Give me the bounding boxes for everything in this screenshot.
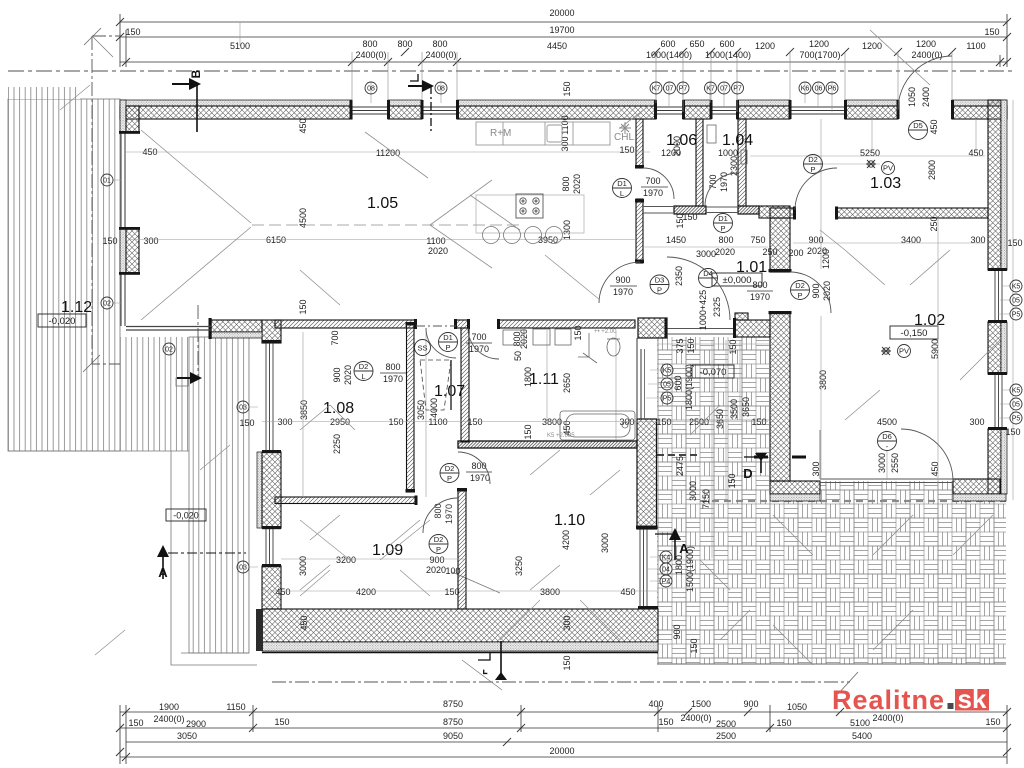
svg-text:1050: 1050 xyxy=(907,87,917,107)
svg-text:150: 150 xyxy=(656,417,671,427)
svg-text:3000: 3000 xyxy=(696,249,716,259)
svg-text:-0,150: -0,150 xyxy=(901,328,928,339)
svg-text:4450: 4450 xyxy=(547,41,567,51)
svg-text:600: 600 xyxy=(719,39,734,49)
svg-text:2020: 2020 xyxy=(428,246,448,256)
svg-text:4200: 4200 xyxy=(356,587,376,597)
svg-text:07: 07 xyxy=(666,86,674,93)
svg-text:1100: 1100 xyxy=(966,41,985,51)
svg-text:3800: 3800 xyxy=(542,417,562,427)
terrace deck 1.12 striped area xyxy=(8,87,257,665)
house bottom wall (under 1.09/1.10) xyxy=(262,609,658,642)
svg-text:150: 150 xyxy=(658,717,673,727)
svg-text:1.02: 1.02 xyxy=(914,312,945,329)
svg-text:150: 150 xyxy=(444,587,459,597)
wall piece right of 1.04 to 1.01|1.02 wall xyxy=(759,206,790,218)
svg-text:150: 150 xyxy=(239,418,254,428)
svg-text:900: 900 xyxy=(332,367,342,382)
svg-text:150: 150 xyxy=(128,718,143,728)
svg-text:5900: 5900 xyxy=(930,339,940,359)
dash-dot line below house bottom wall xyxy=(272,681,850,683)
entrance threshold xyxy=(667,329,735,335)
svg-text:150: 150 xyxy=(388,417,403,427)
svg-text:2000: 2000 xyxy=(672,136,682,156)
svg-text:800: 800 xyxy=(752,280,767,290)
svg-text:150: 150 xyxy=(1007,238,1022,248)
svg-text:6150: 6150 xyxy=(266,235,286,245)
svg-text:+• +2.00: +• +2.00 xyxy=(594,329,617,335)
svg-text:300: 300 xyxy=(970,235,985,245)
svg-text:06: 06 xyxy=(815,86,823,93)
svg-text:450: 450 xyxy=(620,587,635,597)
svg-text:P: P xyxy=(657,286,662,295)
svg-text:2020: 2020 xyxy=(715,247,735,257)
partition 1.08|1.09 horizontal xyxy=(275,497,416,504)
1.01|1.02 vertical wall xyxy=(770,218,790,272)
svg-text:650: 650 xyxy=(689,39,704,49)
svg-text:5100: 5100 xyxy=(850,718,870,728)
svg-text:⌞: ⌞ xyxy=(482,662,488,676)
black caps at wall ends (top wall) xyxy=(350,100,955,119)
svg-text:P: P xyxy=(445,343,450,352)
svg-text:1050: 1050 xyxy=(787,702,807,712)
svg-text:1200: 1200 xyxy=(809,39,829,49)
svg-text:150: 150 xyxy=(776,718,791,728)
svg-text:2400(0): 2400(0) xyxy=(680,713,711,723)
1.05 left glass facade xyxy=(121,133,125,326)
1.02 bottom-left corner block xyxy=(770,481,820,494)
svg-text:50: 50 xyxy=(513,351,523,361)
partition 1.07|1.11 vertical xyxy=(461,328,469,442)
svg-text:400: 400 xyxy=(648,699,663,709)
svg-text:2020: 2020 xyxy=(426,565,446,575)
tick verticals from wall to dim row xyxy=(352,52,952,100)
svg-text:D2: D2 xyxy=(359,362,369,371)
svg-text:3650: 3650 xyxy=(715,409,725,429)
1.03 bottom wall xyxy=(837,208,988,218)
diagonals in 1.09 / deck arrows xyxy=(60,85,620,655)
1.02 glass door D6 (3000) xyxy=(820,479,953,483)
svg-text:02: 02 xyxy=(165,347,173,354)
svg-text:600: 600 xyxy=(673,375,683,390)
svg-text:4000: 4000 xyxy=(429,398,439,418)
svg-text:1.08: 1.08 xyxy=(323,400,354,417)
bottom outline of walkway/patio xyxy=(657,663,1006,665)
svg-text:-0,020: -0,020 xyxy=(49,316,76,327)
svg-text:2250: 2250 xyxy=(332,434,342,454)
svg-text:4500: 4500 xyxy=(877,417,897,427)
svg-text:150: 150 xyxy=(274,717,289,727)
svg-text:P4: P4 xyxy=(662,579,671,586)
svg-text:1970: 1970 xyxy=(643,188,663,198)
svg-text:150: 150 xyxy=(728,339,738,354)
svg-text:150: 150 xyxy=(298,299,308,314)
svg-text:600: 600 xyxy=(660,39,675,49)
svg-text:150: 150 xyxy=(562,655,572,670)
svg-text:3050: 3050 xyxy=(177,731,197,741)
svg-text:K4: K4 xyxy=(662,555,671,562)
svg-text:1.10: 1.10 xyxy=(554,512,585,529)
svg-text:2400(0): 2400(0) xyxy=(425,50,456,60)
svg-text:P: P xyxy=(447,474,452,483)
svg-text:150: 150 xyxy=(984,27,999,37)
svg-text:300: 300 xyxy=(560,136,570,151)
partition 1.05|1.08 / 1.11 top band y320-328 xyxy=(275,320,416,328)
svg-text:03: 03 xyxy=(239,565,247,572)
svg-text:P: P xyxy=(436,545,441,554)
wall seg D x683-711 xyxy=(683,100,711,106)
1.06/1.04 bottom wall xyxy=(674,206,706,214)
svg-text:K6: K6 xyxy=(801,86,810,93)
svg-text:150: 150 xyxy=(523,424,533,439)
svg-text:P7: P7 xyxy=(733,86,742,93)
1.04 right wall xyxy=(738,119,746,206)
svg-text:800: 800 xyxy=(385,362,400,372)
svg-text:150: 150 xyxy=(467,417,482,427)
svg-text:2475: 2475 xyxy=(675,456,685,476)
svg-text:L: L xyxy=(620,189,624,198)
svg-text:1000+425: 1000+425 xyxy=(698,290,708,330)
svg-text:1000(1400): 1000(1400) xyxy=(646,50,692,60)
svg-text:2020: 2020 xyxy=(572,174,582,194)
svg-text:100: 100 xyxy=(445,566,460,576)
svg-text:800: 800 xyxy=(397,39,412,49)
svg-text:4200: 4200 xyxy=(561,530,571,550)
svg-text:2800: 2800 xyxy=(927,160,937,180)
svg-text:250: 250 xyxy=(762,247,777,257)
1.05 bottom glass facade xyxy=(126,327,211,331)
svg-text:150: 150 xyxy=(751,417,766,427)
svg-text:K7: K7 xyxy=(706,86,715,93)
svg-text:05: 05 xyxy=(1012,402,1020,409)
svg-text:3400: 3400 xyxy=(901,235,921,245)
svg-text:D2: D2 xyxy=(795,281,805,290)
1.07 dashed trapezoid xyxy=(420,360,451,410)
bathroom 1.11 bottom wall (dense) xyxy=(458,441,637,448)
svg-text:1.12: 1.12 xyxy=(61,299,92,316)
svg-text:A: A xyxy=(679,541,689,556)
svg-text:150: 150 xyxy=(727,473,737,488)
left top corner block xyxy=(120,100,126,133)
svg-text:1970: 1970 xyxy=(469,344,489,354)
svg-text:K5: K5 xyxy=(663,368,672,375)
svg-text:450: 450 xyxy=(298,118,308,133)
svg-text:3850: 3850 xyxy=(299,400,309,420)
washer in 1.09 corner? small table on deck xyxy=(176,378,188,386)
svg-text:2400: 2400 xyxy=(921,87,931,107)
1.09 west window dark bar xyxy=(256,609,263,651)
svg-text:7150: 7150 xyxy=(701,489,711,509)
svg-text:150: 150 xyxy=(689,638,699,653)
top wall window sills xyxy=(352,107,845,114)
svg-text:sk: sk xyxy=(958,684,987,714)
svg-text:250: 250 xyxy=(929,216,939,231)
svg-text:P: P xyxy=(797,291,802,300)
svg-text:700: 700 xyxy=(708,174,718,189)
svg-text:450: 450 xyxy=(299,615,309,630)
svg-text:D6: D6 xyxy=(882,432,892,441)
svg-text:150: 150 xyxy=(619,145,634,155)
svg-text:D1: D1 xyxy=(718,214,728,223)
svg-text:-0,070: -0,070 xyxy=(700,367,727,378)
svg-text:450: 450 xyxy=(275,587,290,597)
door label circles (two-line) xyxy=(354,121,928,555)
svg-text:900: 900 xyxy=(743,699,758,709)
svg-text:A: A xyxy=(158,565,168,580)
svg-text:200: 200 xyxy=(788,248,803,258)
svg-text:K5: K5 xyxy=(1012,388,1021,395)
svg-text:1970: 1970 xyxy=(470,473,490,483)
svg-text:P5: P5 xyxy=(1012,416,1021,423)
svg-text:1.05: 1.05 xyxy=(367,195,398,212)
svg-text:150: 150 xyxy=(985,717,1000,727)
svg-text:150: 150 xyxy=(675,213,685,228)
corner block left of entrance xyxy=(638,318,667,338)
top wall masonry+insulation segments xyxy=(120,100,1007,119)
svg-text:-0,020: -0,020 xyxy=(173,511,199,521)
svg-text:PV: PV xyxy=(883,164,893,173)
svg-text:07: 07 xyxy=(720,86,728,93)
1.05 bottom exterior wall piece x211-262 xyxy=(211,320,262,332)
svg-text:1300: 1300 xyxy=(562,220,572,240)
svg-text:P5: P5 xyxy=(663,396,672,403)
svg-text:1100: 1100 xyxy=(426,236,445,246)
svg-text:08: 08 xyxy=(437,86,445,93)
1.04 fixtures xyxy=(707,125,747,164)
svg-text:1970: 1970 xyxy=(383,374,403,384)
svg-text:04: 04 xyxy=(662,567,670,574)
svg-text:1.01: 1.01 xyxy=(736,259,767,276)
svg-text:05: 05 xyxy=(1012,298,1020,305)
right wall windows xyxy=(995,270,1002,429)
wall seg G corner x952-1007 xyxy=(952,100,1007,106)
svg-text:900: 900 xyxy=(672,624,682,639)
svg-text:3000: 3000 xyxy=(600,533,610,553)
svg-text:20000: 20000 xyxy=(549,8,574,18)
svg-text:300: 300 xyxy=(562,615,572,630)
wall seg C x457-656 xyxy=(457,100,656,106)
svg-text:1200: 1200 xyxy=(916,39,936,49)
svg-text:150: 150 xyxy=(125,27,140,37)
1.01 bottom wall (right of entrance) xyxy=(735,313,748,320)
svg-text:3500: 3500 xyxy=(729,399,739,419)
entry walkway brick strip xyxy=(657,337,769,664)
svg-text:2020: 2020 xyxy=(343,365,353,385)
1.02 bottom-right corner L wall xyxy=(953,479,1000,494)
svg-text:1450: 1450 xyxy=(666,235,686,245)
svg-text:2020: 2020 xyxy=(822,281,832,301)
svg-text:900: 900 xyxy=(811,283,821,298)
svg-text:1500: 1500 xyxy=(691,699,711,709)
svg-text:300: 300 xyxy=(811,461,821,476)
big wall column 1.11/1.10 | walkway xyxy=(637,419,657,529)
svg-text:150: 150 xyxy=(102,236,117,246)
patio brick area xyxy=(769,481,1006,664)
svg-text:750: 750 xyxy=(750,235,765,245)
svg-text:±0,000: ±0,000 xyxy=(723,275,752,286)
svg-text:450: 450 xyxy=(929,119,939,134)
svg-text:900: 900 xyxy=(429,555,444,565)
svg-text:1.04: 1.04 xyxy=(722,132,753,149)
svg-text:Realitne: Realitne xyxy=(832,685,945,715)
svg-text:8750: 8750 xyxy=(443,699,463,709)
svg-text:05: 05 xyxy=(663,382,671,389)
svg-text:375: 375 xyxy=(675,338,685,353)
svg-text:9050: 9050 xyxy=(443,731,463,741)
svg-text:800: 800 xyxy=(718,235,733,245)
svg-text:D1: D1 xyxy=(443,333,453,342)
svg-text:450: 450 xyxy=(930,461,940,476)
right wall segments xyxy=(988,100,1007,494)
svg-text:150: 150 xyxy=(562,81,572,96)
svg-text:2500: 2500 xyxy=(716,731,736,741)
svg-text:3800: 3800 xyxy=(540,587,560,597)
svg-text:K5 +2.685: K5 +2.685 xyxy=(547,433,575,439)
black wall tie symbols at 1.02 xyxy=(754,456,806,459)
1.06|1.04 wall xyxy=(696,119,703,206)
svg-text:R+M: R+M xyxy=(490,128,511,139)
svg-text:150: 150 xyxy=(573,325,583,340)
svg-text:1200: 1200 xyxy=(862,41,882,51)
svg-text:1800(1900): 1800(1900) xyxy=(684,364,694,410)
grey interior dimension extension lines xyxy=(113,22,1013,591)
svg-text:1150: 1150 xyxy=(226,702,245,712)
svg-text:P7: P7 xyxy=(679,86,688,93)
patio dashed grey top edge xyxy=(700,500,1006,502)
svg-text:3000: 3000 xyxy=(688,481,698,501)
svg-text:700: 700 xyxy=(645,176,660,186)
kitchen counter R+M xyxy=(476,122,610,145)
partition kitchen|1.06 vertical x636-643 xyxy=(636,119,643,168)
svg-text:3000: 3000 xyxy=(877,453,887,473)
svg-text:1970: 1970 xyxy=(750,292,770,302)
wall seg E x737-790 xyxy=(737,100,790,106)
svg-text:3050: 3050 xyxy=(416,400,426,420)
svg-text:800: 800 xyxy=(362,39,377,49)
svg-text:1000(1400): 1000(1400) xyxy=(705,50,751,60)
svg-text:150: 150 xyxy=(686,338,696,353)
1.10 right wall lower part with window to walkway xyxy=(640,529,647,609)
svg-text:2350: 2350 xyxy=(674,266,684,286)
bathroom 1.11 fixtures xyxy=(503,329,635,440)
svg-text:P: P xyxy=(720,224,725,233)
svg-text:11200: 11200 xyxy=(376,148,400,158)
svg-text:1200: 1200 xyxy=(821,249,831,269)
svg-text:2900: 2900 xyxy=(186,719,206,729)
svg-text:3650: 3650 xyxy=(741,397,751,417)
svg-text:K7: K7 xyxy=(652,86,661,93)
kitchen island + stove + sink circles xyxy=(476,195,584,233)
left mid column 150/300 xyxy=(120,229,126,274)
svg-text:D3: D3 xyxy=(655,276,665,285)
svg-text:01: 01 xyxy=(103,178,111,185)
svg-text:D5: D5 xyxy=(913,121,923,130)
svg-text:300: 300 xyxy=(969,417,984,427)
bottom wall inner corners: 1.09 left pillar / partition / right pillar xyxy=(262,566,281,609)
svg-text:2400(0): 2400(0) xyxy=(153,714,184,724)
svg-text:5400: 5400 xyxy=(852,731,872,741)
svg-text:700(1700): 700(1700) xyxy=(799,50,840,60)
svg-text:3800: 3800 xyxy=(818,370,828,390)
svg-text:D2: D2 xyxy=(808,155,818,164)
svg-text:2650: 2650 xyxy=(562,373,572,393)
svg-text:3250: 3250 xyxy=(514,556,524,576)
partition 1.09|1.10 vertical xyxy=(458,490,466,609)
svg-text:08: 08 xyxy=(367,86,375,93)
svg-text:1.03: 1.03 xyxy=(870,175,901,192)
svg-text:B: B xyxy=(189,69,203,78)
svg-text:1900: 1900 xyxy=(159,702,179,712)
roof overhang dash-dot boundary xyxy=(92,36,120,364)
svg-text:P: P xyxy=(810,165,815,174)
svg-text:2400(0): 2400(0) xyxy=(355,50,386,60)
wall seg B x388-422 (pier) xyxy=(388,100,422,106)
svg-text:1.11: 1.11 xyxy=(529,371,559,388)
svg-text:1970: 1970 xyxy=(444,504,454,524)
svg-text:1200: 1200 xyxy=(755,41,775,51)
svg-text:2400(0): 2400(0) xyxy=(911,50,942,60)
svg-text:700: 700 xyxy=(330,330,340,345)
svg-text:D2: D2 xyxy=(434,535,444,544)
svg-text:19700: 19700 xyxy=(549,25,574,35)
wall seg F x845-898 xyxy=(845,100,898,106)
svg-text:800: 800 xyxy=(433,503,443,518)
svg-text:2550: 2550 xyxy=(890,453,900,473)
svg-text:SS: SS xyxy=(417,344,427,353)
svg-text:5250: 5250 xyxy=(860,148,880,158)
svg-text:2325: 2325 xyxy=(712,297,722,317)
svg-text:K5: K5 xyxy=(1012,284,1021,291)
left exterior wall of 1.08/1.09 xyxy=(257,452,262,528)
svg-text:L: L xyxy=(361,372,365,381)
svg-text:8750: 8750 xyxy=(443,717,463,727)
svg-text:02: 02 xyxy=(103,301,111,308)
svg-text:1.07: 1.07 xyxy=(434,383,465,400)
svg-text:2500: 2500 xyxy=(716,719,736,729)
svg-text:1.09: 1.09 xyxy=(372,542,403,559)
svg-text:P5: P5 xyxy=(1012,312,1021,319)
partition 1.08|1.07 vertical xyxy=(407,324,415,492)
svg-text:300: 300 xyxy=(277,417,292,427)
svg-text:1970: 1970 xyxy=(613,287,633,297)
svg-text:P6: P6 xyxy=(828,86,837,93)
section line through top windows (dash-dot horizontal) xyxy=(8,70,1014,72)
svg-text:D: D xyxy=(743,466,752,481)
svg-text:1800: 1800 xyxy=(523,367,533,387)
svg-text:900: 900 xyxy=(615,275,630,285)
level boxes xyxy=(38,273,938,521)
svg-text:700: 700 xyxy=(471,332,486,342)
svg-text:PV: PV xyxy=(899,347,909,356)
svg-text:D1: D1 xyxy=(617,179,627,188)
svg-text:20000: 20000 xyxy=(549,746,574,756)
wall seg A x120-352 xyxy=(120,100,352,106)
svg-text:800: 800 xyxy=(561,176,571,191)
svg-text:800: 800 xyxy=(432,39,447,49)
svg-text:D4: D4 xyxy=(703,269,713,278)
svg-text:D2: D2 xyxy=(445,464,455,473)
svg-text:03: 03 xyxy=(239,405,247,412)
svg-text:300: 300 xyxy=(143,236,158,246)
